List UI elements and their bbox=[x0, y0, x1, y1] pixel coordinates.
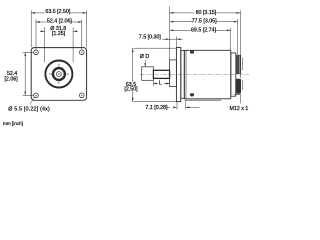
svg-text:63.5 [2.50]: 63.5 [2.50] bbox=[45, 9, 71, 15]
svg-text:L: L bbox=[159, 81, 162, 87]
svg-text:[2.50]: [2.50] bbox=[124, 86, 138, 92]
svg-text:80 [3.15]: 80 [3.15] bbox=[196, 10, 217, 16]
svg-text:M12 x 1: M12 x 1 bbox=[230, 106, 249, 112]
svg-text:77.5 [3.05]: 77.5 [3.05] bbox=[192, 19, 218, 25]
svg-text:Ø 5.5 [0.22] (4x): Ø 5.5 [0.22] (4x) bbox=[8, 107, 50, 113]
svg-text:52.4 [2.06]: 52.4 [2.06] bbox=[47, 18, 73, 24]
svg-text:Ø D: Ø D bbox=[140, 54, 150, 60]
svg-text:7.1 [0.28]: 7.1 [0.28] bbox=[145, 105, 168, 111]
svg-text:[2.06]: [2.06] bbox=[4, 76, 18, 82]
svg-text:69.5 [2.74]: 69.5 [2.74] bbox=[191, 27, 217, 33]
svg-text:mm [inch]: mm [inch] bbox=[3, 121, 23, 126]
svg-text:7.5 [0.30]: 7.5 [0.30] bbox=[139, 34, 162, 40]
svg-text:[1.25]: [1.25] bbox=[52, 31, 66, 37]
